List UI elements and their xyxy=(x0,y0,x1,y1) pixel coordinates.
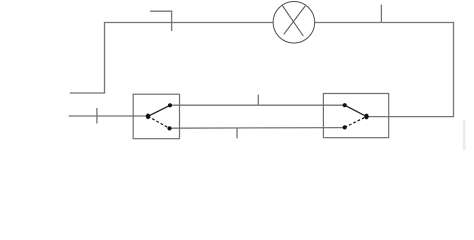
S1 lower contact dot xyxy=(167,126,171,130)
switch S1 box xyxy=(133,94,179,139)
lamp EL: cross stroke 1 xyxy=(282,5,303,36)
S1 common terminal dot xyxy=(146,114,150,120)
junction step symbol on top wire: vertical segment xyxy=(171,11,173,31)
stub tap going up from top wire xyxy=(380,5,382,23)
traveller wire upper (S1 to S2) xyxy=(170,104,345,106)
wire: top horizontal, left section (corner to lamp) xyxy=(104,22,274,24)
wire: right vertical drop xyxy=(453,22,455,117)
wire: S2 common to right vertical xyxy=(367,116,455,118)
switch S2 lever (dashed, from lower contact) xyxy=(345,117,367,128)
faint artifact line bottom right xyxy=(463,120,466,151)
junction step symbol on top wire: horizontal segment xyxy=(150,10,172,12)
switch S1 lever (dashed, to lower contact) xyxy=(148,116,170,128)
wire: supply lead to S1 common xyxy=(69,115,148,117)
S2 lower contact dot xyxy=(343,125,347,129)
S1 upper contact dot xyxy=(168,103,172,107)
S2 upper contact dot xyxy=(343,103,347,107)
lamp EL: circle xyxy=(273,2,315,44)
S2 common terminal dot xyxy=(364,114,368,120)
tick down on lower traveller xyxy=(236,128,238,138)
lamp EL: cross stroke 2 xyxy=(284,6,306,35)
wire: left horizontal stub at y=93 (supply terminal a) xyxy=(70,92,105,94)
tick up on upper traveller xyxy=(257,95,259,105)
wire: left vertical drop from top-left corner xyxy=(104,22,106,93)
tick mark crossing supply lead xyxy=(96,108,98,124)
traveller wire lower (S1 to S2) xyxy=(170,127,345,130)
wire: top horizontal, right section (lamp to top-right corner) xyxy=(315,22,454,24)
switch S1 lever (solid, to upper contact) xyxy=(148,105,170,116)
switch S2 lever (solid, from upper contact) xyxy=(345,105,367,116)
switch S2 box xyxy=(323,94,388,138)
